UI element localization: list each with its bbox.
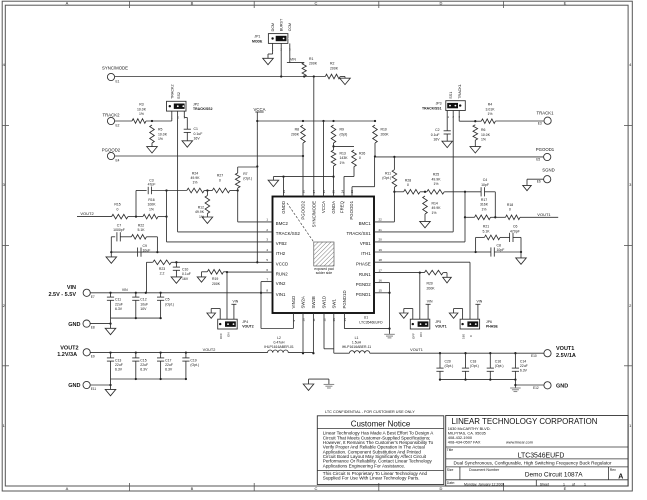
svg-text:Applications Engineering For A: Applications Engineering For Assistance. bbox=[323, 463, 405, 468]
svg-text:R12: R12 bbox=[198, 205, 204, 209]
svg-text:TRACK/SS1: TRACK/SS1 bbox=[347, 231, 372, 236]
svg-text:SS2: SS2 bbox=[177, 92, 181, 99]
svg-text:1000pF: 1000pF bbox=[113, 228, 125, 232]
svg-text:VFB1: VFB1 bbox=[360, 241, 371, 246]
svg-text:SS1: SS1 bbox=[449, 92, 453, 99]
svg-text:B: B bbox=[191, 1, 194, 6]
svg-text:E2: E2 bbox=[116, 124, 120, 128]
svg-text:E: E bbox=[564, 486, 567, 491]
svg-text:1%: 1% bbox=[340, 161, 345, 165]
svg-text:19: 19 bbox=[379, 248, 383, 252]
svg-text:15: 15 bbox=[379, 289, 383, 293]
svg-text:10.0K: 10.0K bbox=[481, 133, 491, 137]
svg-text:L2: L2 bbox=[277, 336, 281, 340]
svg-text:R23: R23 bbox=[159, 267, 165, 271]
svg-text:CCM: CCM bbox=[288, 23, 292, 31]
svg-text:Monday, January 12,2009: Monday, January 12,2009 bbox=[464, 482, 504, 486]
svg-text:GND: GND bbox=[68, 383, 80, 389]
svg-text:1%: 1% bbox=[149, 207, 154, 211]
svg-text:R10: R10 bbox=[381, 128, 387, 132]
svg-text:VOUT1: VOUT1 bbox=[556, 346, 574, 352]
svg-text:PGOOD2: PGOOD2 bbox=[102, 147, 121, 152]
svg-text:solder side: solder side bbox=[316, 271, 333, 275]
svg-text:JP4: JP4 bbox=[242, 320, 248, 324]
svg-text:0.47uH: 0.47uH bbox=[273, 340, 285, 344]
svg-text:R17: R17 bbox=[481, 198, 487, 202]
svg-text:6.3V: 6.3V bbox=[165, 368, 173, 372]
svg-text:E8: E8 bbox=[91, 326, 95, 330]
svg-text:VOUT2: VOUT2 bbox=[203, 348, 216, 352]
svg-text:C6: C6 bbox=[513, 225, 517, 229]
svg-text:Title: Title bbox=[447, 448, 453, 452]
svg-text:16V: 16V bbox=[194, 137, 201, 141]
svg-text:1.2V/3A: 1.2V/3A bbox=[57, 352, 77, 358]
svg-text:R15: R15 bbox=[114, 203, 120, 207]
svg-text:R4: R4 bbox=[488, 103, 492, 107]
svg-text:1: 1 bbox=[563, 482, 565, 486]
svg-text:E6: E6 bbox=[537, 180, 541, 184]
svg-text:VCCA: VCCA bbox=[321, 201, 326, 213]
svg-text:6.3V: 6.3V bbox=[115, 307, 123, 311]
svg-text:BMC1: BMC1 bbox=[359, 221, 372, 226]
svg-text:C8: C8 bbox=[497, 243, 501, 247]
svg-text:200K: 200K bbox=[309, 62, 318, 66]
svg-text:0.1uF: 0.1uF bbox=[431, 133, 440, 137]
svg-text:BMC2: BMC2 bbox=[276, 221, 289, 226]
svg-text:10uF: 10uF bbox=[140, 302, 148, 306]
svg-text:16V: 16V bbox=[182, 277, 189, 281]
svg-text:R27: R27 bbox=[217, 174, 223, 178]
svg-text:0: 0 bbox=[359, 156, 361, 160]
svg-text:JP2: JP2 bbox=[193, 102, 199, 106]
svg-text:C14: C14 bbox=[520, 360, 526, 364]
svg-text:SW1: SW1 bbox=[332, 299, 337, 309]
svg-text:TRACK2: TRACK2 bbox=[103, 112, 121, 117]
svg-text:R24: R24 bbox=[192, 171, 198, 175]
svg-text:VOUT1: VOUT1 bbox=[435, 325, 447, 329]
svg-text:VIN2: VIN2 bbox=[276, 281, 286, 286]
svg-text:VOUT2: VOUT2 bbox=[80, 211, 94, 216]
svg-text:GND: GND bbox=[68, 322, 80, 328]
svg-text:C2: C2 bbox=[435, 128, 439, 132]
svg-text:316K: 316K bbox=[480, 203, 489, 207]
svg-text:0.1uF: 0.1uF bbox=[182, 272, 191, 276]
svg-text:49.9K: 49.9K bbox=[432, 177, 442, 181]
svg-text:C4: C4 bbox=[483, 178, 487, 182]
svg-text:JP3: JP3 bbox=[436, 102, 442, 106]
svg-text:D: D bbox=[440, 486, 443, 491]
svg-text:OFF: OFF bbox=[412, 333, 416, 339]
svg-text:0: 0 bbox=[509, 208, 511, 212]
svg-text:1%: 1% bbox=[434, 182, 439, 186]
svg-text:PGND1: PGND1 bbox=[356, 292, 372, 297]
svg-text:C1: C1 bbox=[194, 127, 198, 131]
svg-text:0: 0 bbox=[117, 207, 119, 211]
svg-text:R19: R19 bbox=[212, 277, 218, 281]
svg-text:VFB2: VFB2 bbox=[276, 241, 287, 246]
svg-text:C17: C17 bbox=[165, 359, 171, 363]
svg-text:3.01K: 3.01K bbox=[486, 107, 496, 111]
svg-text:VCCA: VCCA bbox=[254, 107, 266, 112]
svg-text:SYNC/MODE: SYNC/MODE bbox=[312, 201, 317, 227]
svg-text:5.1K: 5.1K bbox=[482, 229, 490, 233]
svg-text:SYNC/MODE: SYNC/MODE bbox=[102, 65, 128, 70]
svg-text:TRACK1: TRACK1 bbox=[537, 111, 555, 116]
svg-text:49.9K: 49.9K bbox=[432, 206, 442, 210]
svg-text:200K: 200K bbox=[427, 286, 436, 290]
svg-text:0.1uF: 0.1uF bbox=[194, 132, 203, 136]
svg-text:SW2A: SW2A bbox=[301, 296, 306, 308]
svg-text:(Opt.): (Opt.) bbox=[470, 364, 479, 368]
svg-text:TRACK/SS2: TRACK/SS2 bbox=[276, 231, 301, 236]
svg-text:R13: R13 bbox=[340, 151, 346, 155]
svg-text:6.3V: 6.3V bbox=[115, 368, 123, 372]
svg-text:R18: R18 bbox=[507, 203, 513, 207]
svg-text:5.1K: 5.1K bbox=[137, 228, 145, 232]
svg-text:RUN2: RUN2 bbox=[276, 271, 288, 276]
svg-text:E7: E7 bbox=[91, 295, 95, 299]
svg-text:VIN1: VIN1 bbox=[276, 292, 286, 297]
svg-text:1%: 1% bbox=[193, 181, 198, 185]
svg-text:C11: C11 bbox=[115, 298, 121, 302]
svg-text:R16: R16 bbox=[148, 198, 154, 202]
svg-text:22uF: 22uF bbox=[115, 302, 123, 306]
svg-text:VIN: VIN bbox=[477, 299, 483, 303]
svg-text:R21: R21 bbox=[483, 225, 489, 229]
svg-text:R8: R8 bbox=[295, 128, 299, 132]
svg-text:0: 0 bbox=[219, 178, 221, 182]
svg-text:D: D bbox=[440, 1, 443, 6]
svg-text:SW1D: SW1D bbox=[322, 296, 327, 309]
svg-text:(Opt.): (Opt.) bbox=[382, 176, 391, 180]
svg-text:GNDD: GNDD bbox=[281, 201, 286, 214]
svg-text:PGOOD2: PGOOD2 bbox=[301, 200, 306, 219]
svg-text:1.5uH: 1.5uH bbox=[352, 340, 362, 344]
svg-text:R14: R14 bbox=[432, 201, 438, 205]
svg-text:ON: ON bbox=[227, 333, 231, 338]
svg-text:22uF: 22uF bbox=[520, 364, 528, 368]
svg-text:A: A bbox=[618, 473, 623, 480]
svg-text:LINEAR TECHNOLOGY CORPORATION: LINEAR TECHNOLOGY CORPORATION bbox=[452, 417, 598, 426]
svg-text:R11: R11 bbox=[385, 171, 391, 175]
svg-text:R6: R6 bbox=[481, 128, 485, 132]
svg-text:C: C bbox=[315, 486, 318, 491]
svg-text:DCM: DCM bbox=[271, 23, 275, 31]
svg-text:VIN: VIN bbox=[427, 299, 433, 303]
svg-text:47pF: 47pF bbox=[148, 183, 156, 187]
svg-text:49.9K: 49.9K bbox=[191, 176, 201, 180]
svg-text:A: A bbox=[66, 1, 69, 6]
svg-text:E10: E10 bbox=[531, 354, 537, 358]
svg-text:TRACK/SS1: TRACK/SS1 bbox=[422, 106, 442, 110]
svg-text:A: A bbox=[66, 486, 69, 491]
svg-text:1%: 1% bbox=[432, 211, 437, 215]
svg-text:(Opt.): (Opt.) bbox=[165, 302, 174, 306]
svg-text:C12: C12 bbox=[140, 298, 146, 302]
svg-text:470pF: 470pF bbox=[510, 229, 520, 233]
svg-text:(Opt.): (Opt.) bbox=[445, 364, 454, 368]
svg-text:TRACK1: TRACK1 bbox=[458, 84, 462, 99]
svg-text:(Opt): (Opt) bbox=[340, 132, 348, 136]
svg-text:VOUT2: VOUT2 bbox=[60, 345, 78, 351]
svg-text:408-434-0507 FAX: 408-434-0507 FAX bbox=[448, 439, 481, 444]
svg-text:17: 17 bbox=[379, 268, 383, 272]
svg-text:Size: Size bbox=[447, 468, 454, 472]
svg-text:FREQ: FREQ bbox=[340, 200, 345, 213]
svg-text:IHLP1616ABER-01: IHLP1616ABER-01 bbox=[264, 345, 294, 349]
svg-text:Demo Circuit 1087A: Demo Circuit 1087A bbox=[525, 472, 583, 479]
svg-text:C19: C19 bbox=[190, 359, 196, 363]
svg-text:R28: R28 bbox=[405, 178, 411, 182]
svg-text:JP1: JP1 bbox=[254, 35, 260, 39]
svg-text:10uF: 10uF bbox=[143, 249, 151, 253]
svg-text:C16: C16 bbox=[495, 360, 501, 364]
svg-text:IHLP1616ABER-11: IHLP1616ABER-11 bbox=[342, 345, 371, 349]
svg-text:C13: C13 bbox=[115, 359, 121, 363]
svg-text:Sheet: Sheet bbox=[540, 482, 549, 486]
svg-text:SW2B: SW2B bbox=[311, 296, 316, 308]
svg-text:143K: 143K bbox=[340, 156, 349, 160]
svg-text:1: 1 bbox=[584, 482, 586, 486]
svg-text:18: 18 bbox=[379, 258, 383, 262]
svg-text:1%: 1% bbox=[139, 112, 144, 116]
svg-text:U1: U1 bbox=[364, 315, 368, 319]
svg-text:PHASE: PHASE bbox=[486, 325, 499, 329]
svg-text:GNDA: GNDA bbox=[331, 201, 336, 214]
svg-text:VOUT1: VOUT1 bbox=[537, 212, 551, 217]
svg-text:PGOOD1: PGOOD1 bbox=[349, 200, 354, 219]
svg-text:VCCD: VCCD bbox=[276, 262, 288, 267]
svg-text:SGND: SGND bbox=[542, 167, 554, 172]
svg-text:1%: 1% bbox=[199, 215, 204, 219]
svg-text:Date:: Date: bbox=[447, 481, 455, 485]
svg-text:10V: 10V bbox=[140, 307, 147, 311]
svg-text:200K: 200K bbox=[212, 282, 221, 286]
svg-text:JP5: JP5 bbox=[435, 320, 441, 324]
svg-text:VIN: VIN bbox=[233, 299, 239, 303]
svg-text:1%: 1% bbox=[158, 137, 163, 141]
svg-text:E5: E5 bbox=[536, 158, 540, 162]
svg-text:C: C bbox=[315, 1, 318, 6]
svg-text:VOUT2: VOUT2 bbox=[242, 325, 254, 329]
svg-text:(Opt.): (Opt.) bbox=[190, 363, 199, 367]
svg-text:E4: E4 bbox=[116, 159, 120, 163]
svg-text:10pF: 10pF bbox=[481, 183, 489, 187]
svg-text:2.2: 2.2 bbox=[160, 272, 165, 276]
svg-text:1%: 1% bbox=[481, 138, 486, 142]
svg-text:R2: R2 bbox=[330, 62, 334, 66]
svg-text:2.5V/1A: 2.5V/1A bbox=[556, 353, 576, 359]
svg-text:L1: L1 bbox=[355, 336, 359, 340]
svg-text:E1: E1 bbox=[116, 80, 120, 84]
svg-text:E: E bbox=[564, 1, 567, 6]
svg-text:C10: C10 bbox=[182, 268, 188, 272]
svg-text:16V: 16V bbox=[433, 138, 440, 142]
svg-text:PHASE: PHASE bbox=[356, 261, 371, 266]
svg-text:B: B bbox=[191, 486, 194, 491]
svg-text:C18: C18 bbox=[470, 360, 476, 364]
svg-text:of: of bbox=[572, 482, 575, 486]
svg-text:www.linear.com: www.linear.com bbox=[506, 439, 533, 444]
svg-text:(Opt.): (Opt.) bbox=[243, 177, 252, 181]
svg-text:JP6: JP6 bbox=[486, 320, 492, 324]
svg-text:E9: E9 bbox=[91, 354, 95, 358]
svg-text:TRACK/SS2: TRACK/SS2 bbox=[193, 107, 213, 111]
svg-text:C7: C7 bbox=[117, 223, 121, 227]
svg-text:R3: R3 bbox=[139, 103, 143, 107]
svg-text:R9: R9 bbox=[340, 128, 344, 132]
svg-text:R20: R20 bbox=[427, 282, 433, 286]
svg-text:10.0K: 10.0K bbox=[137, 107, 147, 111]
svg-text:BURST: BURST bbox=[280, 18, 284, 31]
svg-text:LTC CONFIDENTIAL - FOR CUSTOME: LTC CONFIDENTIAL - FOR CUSTOMER USE ONLY bbox=[325, 410, 415, 414]
svg-text:PGND2: PGND2 bbox=[356, 282, 372, 287]
svg-text:R1: R1 bbox=[309, 57, 313, 61]
svg-text:20: 20 bbox=[379, 238, 383, 242]
svg-text:GND: GND bbox=[556, 384, 568, 390]
svg-text:Document Number: Document Number bbox=[469, 468, 500, 472]
svg-text:R22: R22 bbox=[138, 223, 144, 227]
svg-text:VIN: VIN bbox=[122, 288, 128, 292]
svg-text:21: 21 bbox=[379, 228, 383, 232]
svg-text:LTC3546EUFD: LTC3546EUFD bbox=[359, 320, 383, 324]
svg-text:(Opt.): (Opt.) bbox=[495, 364, 504, 368]
svg-text:Rev: Rev bbox=[610, 468, 616, 472]
svg-text:R7: R7 bbox=[243, 172, 247, 176]
svg-text:Dual Synchronous, Configurable: Dual Synchronous, Configurable, High Swi… bbox=[454, 461, 612, 466]
svg-text:VOUT1: VOUT1 bbox=[410, 348, 423, 352]
svg-text:100K: 100K bbox=[147, 203, 156, 207]
svg-text:TRACK2: TRACK2 bbox=[170, 84, 174, 99]
svg-text:200K: 200K bbox=[330, 66, 339, 70]
svg-text:Supplied For Use With Linear T: Supplied For Use With Linear Technology … bbox=[323, 476, 420, 481]
svg-text:2.5V - 5.5V: 2.5V - 5.5V bbox=[48, 292, 76, 298]
svg-text:200K: 200K bbox=[291, 132, 300, 136]
svg-text:22: 22 bbox=[379, 218, 383, 222]
svg-text:VIN: VIN bbox=[290, 57, 296, 61]
svg-text:E3: E3 bbox=[538, 122, 542, 126]
svg-text:C15: C15 bbox=[140, 359, 146, 363]
svg-text:MODE: MODE bbox=[252, 40, 263, 44]
svg-text:C5: C5 bbox=[165, 298, 169, 302]
svg-text:10pF: 10pF bbox=[497, 248, 505, 252]
svg-text:PGND1D: PGND1D bbox=[342, 290, 347, 308]
svg-text:R26: R26 bbox=[359, 151, 365, 155]
svg-text:10.0K: 10.0K bbox=[158, 132, 168, 136]
svg-text:22uF: 22uF bbox=[115, 363, 123, 367]
svg-text:PGOOD1: PGOOD1 bbox=[536, 147, 555, 152]
svg-text:ITH1: ITH1 bbox=[361, 251, 371, 256]
svg-text:R25: R25 bbox=[433, 173, 439, 177]
svg-text:C9: C9 bbox=[143, 244, 147, 248]
svg-text:VIN: VIN bbox=[67, 285, 76, 291]
svg-text:RUN1: RUN1 bbox=[359, 272, 371, 277]
svg-text:C20: C20 bbox=[445, 360, 451, 364]
svg-text:LTC3546EUFD: LTC3546EUFD bbox=[518, 452, 565, 459]
svg-text:ON: ON bbox=[419, 333, 423, 338]
svg-text:1%: 1% bbox=[482, 207, 487, 211]
svg-text:6.3V: 6.3V bbox=[520, 369, 528, 373]
svg-text:22uF: 22uF bbox=[140, 363, 148, 367]
svg-text:0: 0 bbox=[407, 183, 409, 187]
svg-text:6.3V: 6.3V bbox=[140, 368, 148, 372]
svg-text:E12: E12 bbox=[533, 386, 539, 390]
svg-text:180: 180 bbox=[461, 334, 465, 339]
svg-text:ITH2: ITH2 bbox=[276, 251, 286, 256]
svg-text:E11: E11 bbox=[91, 387, 97, 391]
svg-text:22uF: 22uF bbox=[165, 363, 173, 367]
svg-text:OFF: OFF bbox=[219, 333, 223, 339]
svg-text:R5: R5 bbox=[158, 128, 162, 132]
svg-text:Customer Notice: Customer Notice bbox=[351, 420, 411, 429]
svg-text:49.9K: 49.9K bbox=[195, 210, 205, 214]
svg-text:16: 16 bbox=[379, 278, 383, 282]
svg-text:1%: 1% bbox=[488, 112, 493, 116]
svg-text:VIN1D: VIN1D bbox=[291, 296, 296, 309]
svg-text:200K: 200K bbox=[381, 132, 390, 136]
